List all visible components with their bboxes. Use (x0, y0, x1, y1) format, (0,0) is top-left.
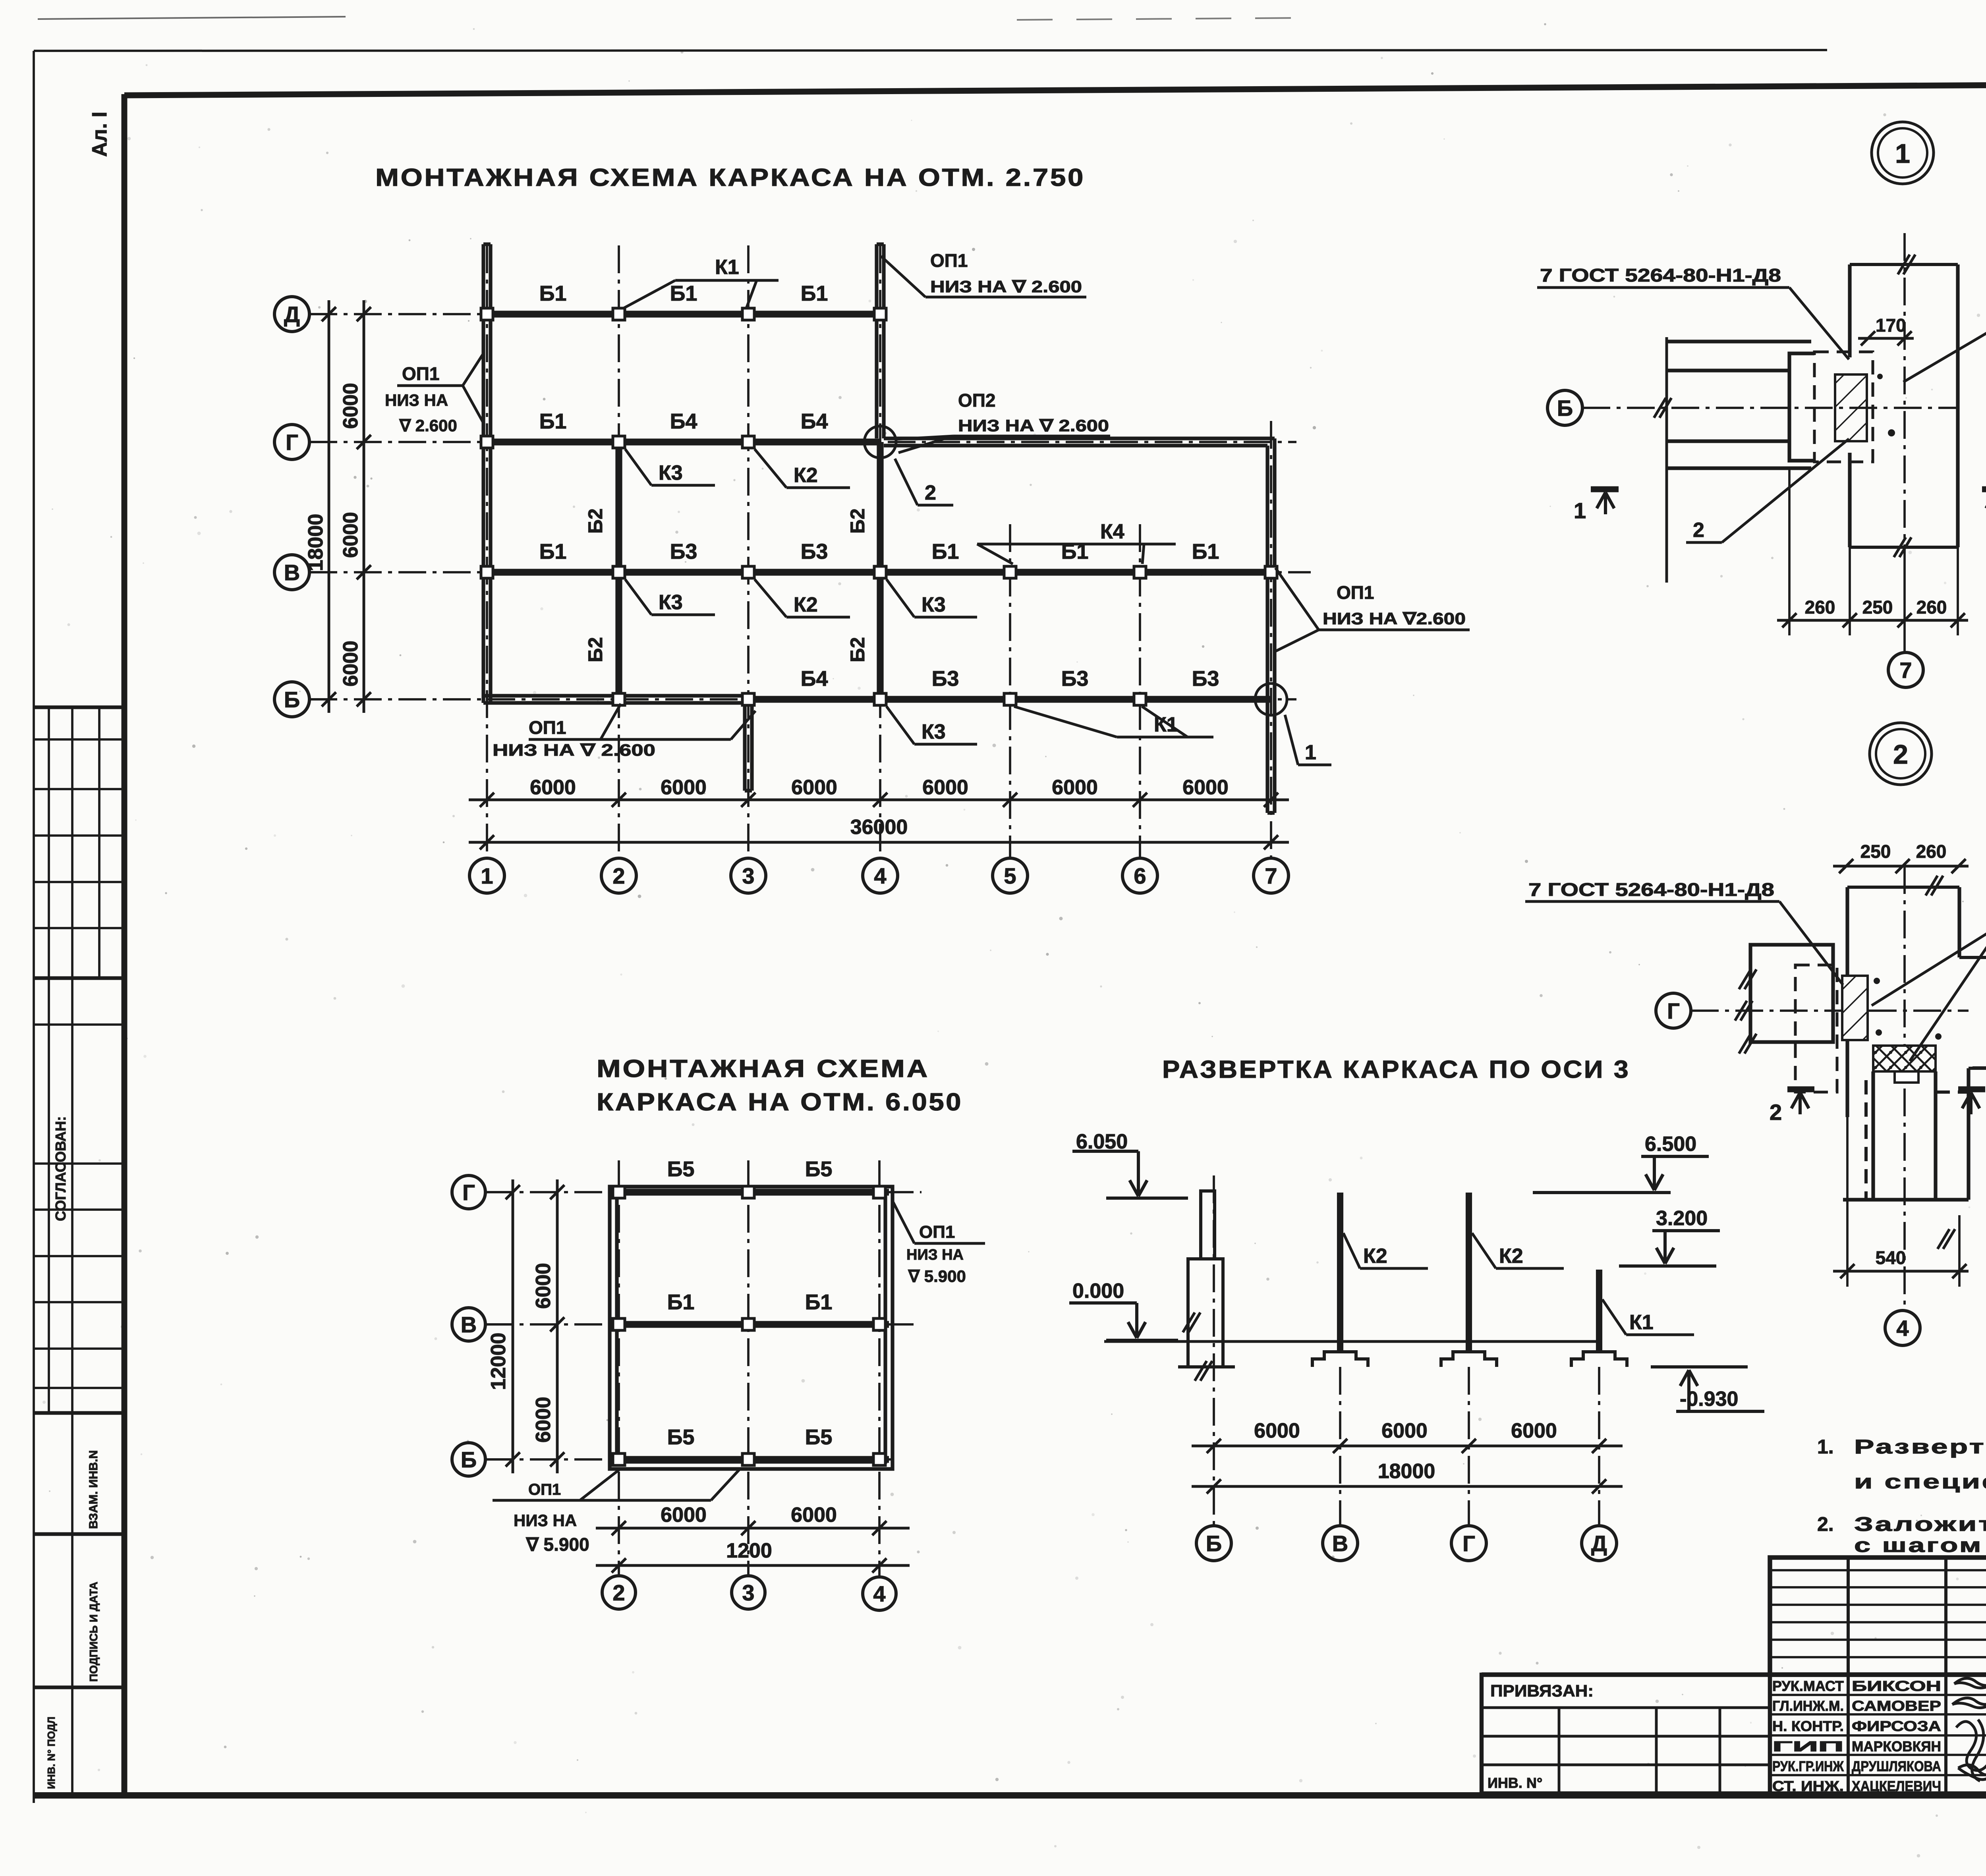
svg-text:Д: Д (1591, 1531, 1607, 1556)
svg-text:2.: 2. (1817, 1513, 1834, 1535)
svg-text:Б5: Б5 (805, 1157, 833, 1181)
svg-text:3: 3 (742, 1580, 754, 1605)
svg-text:Б3: Б3 (1192, 667, 1219, 691)
svg-text:Б3: Б3 (670, 540, 697, 564)
svg-text:Б2: Б2 (584, 508, 607, 534)
svg-text:250: 250 (1862, 597, 1893, 618)
svg-text:РУК.МАСТ: РУК.МАСТ (1772, 1678, 1844, 1694)
svg-text:260: 260 (1916, 597, 1947, 618)
svg-text:К2: К2 (794, 593, 818, 616)
svg-text:260: 260 (1916, 841, 1947, 862)
svg-text:Н. КОНТР.: Н. КОНТР. (1772, 1718, 1844, 1734)
svg-text:НИЗ НА ∇ 2.600: НИЗ НА ∇ 2.600 (493, 741, 655, 759)
svg-text:6: 6 (1134, 863, 1146, 888)
svg-text:1: 1 (481, 863, 493, 888)
svg-text:с шагом 450×450 по высоте.: с шагом 450×450 по высоте. (1854, 1534, 1986, 1556)
svg-text:ВЗАМ. ИНВ.N: ВЗАМ. ИНВ.N (87, 1450, 100, 1529)
svg-text:РАЗВЕРТКА КАРКАСА ПО ОСИ 3: РАЗВЕРТКА КАРКАСА ПО ОСИ 3 (1162, 1056, 1630, 1083)
svg-text:Б: Б (284, 687, 300, 712)
svg-text:НИЗ НА ∇ 2.600: НИЗ НА ∇ 2.600 (958, 416, 1109, 435)
svg-text:Г: Г (286, 430, 298, 455)
svg-text:Заложить 4 сетки Ф4ВΙ с яч: Заложить 4 сетки Ф4ВΙ с ячейкой 80×80 (1854, 1513, 1986, 1535)
svg-text:Б1: Б1 (801, 282, 828, 305)
svg-text:НИЗ НА ∇2.600: НИЗ НА ∇2.600 (1323, 609, 1466, 628)
svg-text:НИЗ НА ∇ 2.600: НИЗ НА ∇ 2.600 (930, 277, 1082, 296)
svg-text:6000: 6000 (530, 776, 576, 799)
svg-text:Б5: Б5 (667, 1157, 695, 1181)
svg-text:2: 2 (612, 1580, 625, 1605)
svg-text:Б5: Б5 (667, 1425, 695, 1449)
svg-text:К1: К1 (1629, 1311, 1654, 1334)
svg-text:170: 170 (1876, 315, 1906, 336)
svg-text:Б4: Б4 (801, 667, 828, 691)
svg-text:ОП1: ОП1 (402, 363, 439, 384)
svg-text:Б1: Б1 (539, 409, 567, 433)
svg-text:3: 3 (742, 863, 754, 888)
svg-text:6000: 6000 (339, 383, 362, 429)
svg-text:Б1: Б1 (1192, 540, 1219, 564)
svg-text:∇ 2.600: ∇ 2.600 (399, 416, 457, 435)
svg-text:6000: 6000 (339, 512, 362, 558)
svg-text:6000: 6000 (1052, 776, 1098, 799)
svg-text:Б2: Б2 (846, 508, 869, 534)
svg-text:12000: 12000 (487, 1333, 510, 1390)
svg-text:ОП1: ОП1 (528, 1481, 561, 1498)
svg-text:1.: 1. (1817, 1436, 1834, 1458)
svg-text:ДРУШЛЯКОВА: ДРУШЛЯКОВА (1852, 1758, 1941, 1774)
svg-text:К2: К2 (1499, 1245, 1523, 1268)
svg-text:К2: К2 (794, 464, 818, 487)
svg-text:6000: 6000 (532, 1397, 555, 1443)
svg-text:6000: 6000 (1511, 1419, 1557, 1442)
svg-text:4: 4 (874, 863, 886, 888)
svg-text:6000: 6000 (532, 1263, 555, 1309)
svg-text:ГИП: ГИП (1772, 1738, 1844, 1754)
svg-text:36000: 36000 (850, 816, 908, 839)
svg-text:К3: К3 (922, 720, 946, 743)
svg-text:МОНТАЖНАЯ СХЕМА КАРКАСА НА: МОНТАЖНАЯ СХЕМА КАРКАСА НА ОТМ. 2.750 (375, 164, 1085, 191)
svg-text:НИЗ НА: НИЗ НА (514, 1511, 577, 1530)
svg-text:КАРКАСА НА ОТМ. 6.050: КАРКАСА НА ОТМ. 6.050 (597, 1089, 963, 1116)
svg-text:Б: Б (1557, 396, 1573, 421)
svg-text:4: 4 (1896, 1316, 1909, 1341)
svg-text:НИЗ НА: НИЗ НА (906, 1247, 964, 1263)
svg-text:540: 540 (1876, 1247, 1906, 1268)
svg-text:ОП1: ОП1 (1337, 582, 1374, 603)
svg-text:К3: К3 (922, 593, 946, 616)
svg-text:2: 2 (1893, 739, 1908, 770)
svg-text:2: 2 (1770, 1100, 1782, 1125)
svg-text:К3: К3 (659, 461, 683, 484)
svg-text:260: 260 (1805, 597, 1835, 618)
svg-text:∇ 5.900: ∇ 5.900 (908, 1267, 966, 1285)
svg-text:18000: 18000 (1378, 1460, 1435, 1483)
svg-text:Б1: Б1 (667, 1290, 695, 1314)
svg-text:ГЛ.ИНЖ.М.: ГЛ.ИНЖ.М. (1772, 1698, 1844, 1714)
svg-text:6000: 6000 (1182, 776, 1229, 799)
svg-text:2: 2 (612, 863, 625, 888)
svg-text:К3: К3 (659, 591, 683, 614)
svg-text:6000: 6000 (661, 1504, 707, 1527)
svg-text:ОП2: ОП2 (958, 390, 995, 411)
svg-text:ИНВ. N°: ИНВ. N° (1488, 1775, 1542, 1791)
svg-text:Б1: Б1 (805, 1290, 833, 1314)
svg-text:Б3: Б3 (932, 667, 959, 691)
svg-text:ПОДПИСЬ И ДАТА: ПОДПИСЬ И ДАТА (87, 1582, 100, 1682)
svg-text:ОП1: ОП1 (529, 717, 566, 738)
svg-text:ХАЦКЕЛЕВИЧ: ХАЦКЕЛЕВИЧ (1852, 1778, 1941, 1794)
svg-text:Б2: Б2 (846, 637, 869, 662)
svg-text:Г: Г (1667, 998, 1680, 1023)
svg-text:2: 2 (925, 481, 936, 504)
svg-text:СТ. ИНЖ.: СТ. ИНЖ. (1772, 1778, 1844, 1794)
svg-text:ПРИВЯЗАН:: ПРИВЯЗАН: (1490, 1681, 1594, 1700)
svg-text:Б1: Б1 (539, 282, 567, 305)
svg-text:250: 250 (1860, 841, 1891, 862)
svg-text:Б2: Б2 (584, 637, 607, 662)
svg-text:Б1: Б1 (670, 282, 697, 305)
svg-text:Г: Г (462, 1180, 475, 1205)
svg-text:7: 7 (1265, 863, 1277, 888)
svg-text:К2: К2 (1363, 1245, 1387, 1268)
svg-text:Б: Б (461, 1447, 477, 1472)
svg-text:7: 7 (1899, 658, 1912, 683)
svg-text:МАРКОВКЯН: МАРКОВКЯН (1852, 1738, 1941, 1754)
svg-text:К4: К4 (1100, 520, 1124, 543)
svg-text:6000: 6000 (1381, 1419, 1428, 1442)
svg-text:Д: Д (284, 302, 300, 327)
svg-text:В: В (1332, 1531, 1348, 1556)
svg-text:∇ 5.900: ∇ 5.900 (525, 1534, 589, 1555)
svg-text:САМОВЕР: САМОВЕР (1852, 1698, 1941, 1714)
svg-text:18000: 18000 (304, 514, 327, 571)
svg-text:1: 1 (1574, 498, 1586, 523)
svg-text:0.000: 0.000 (1072, 1280, 1124, 1303)
svg-text:6000: 6000 (791, 1504, 837, 1527)
svg-text:6000: 6000 (922, 776, 968, 799)
svg-text:5: 5 (1004, 863, 1016, 888)
svg-text:ФИРСОЗА: ФИРСОЗА (1852, 1718, 1941, 1734)
svg-text:К1: К1 (715, 256, 739, 279)
svg-text:6000: 6000 (661, 776, 707, 799)
svg-text:Б4: Б4 (801, 409, 828, 433)
svg-text:В: В (284, 560, 300, 585)
svg-text:4: 4 (873, 1581, 885, 1606)
svg-text:7 ГОСТ 5264-80-Н1-Д8: 7 ГОСТ 5264-80-Н1-Д8 (1528, 879, 1774, 900)
svg-text:Б3: Б3 (801, 540, 828, 564)
svg-text:МОНТАЖНАЯ СХЕМА: МОНТАЖНАЯ СХЕМА (597, 1055, 929, 1083)
svg-text:Г: Г (1462, 1531, 1475, 1556)
svg-text:6000: 6000 (339, 641, 362, 687)
svg-text:Б1: Б1 (932, 540, 959, 564)
svg-text:Б1: Б1 (539, 540, 567, 564)
svg-text:2: 2 (1693, 519, 1704, 542)
svg-text:В: В (461, 1312, 477, 1337)
svg-text:Б: Б (1206, 1531, 1222, 1556)
svg-text:1200: 1200 (726, 1539, 772, 1562)
svg-text:6000: 6000 (791, 776, 837, 799)
svg-text:Б4: Б4 (670, 409, 697, 433)
svg-text:СОГЛАСОВАН:: СОГЛАСОВАН: (52, 1116, 69, 1221)
svg-text:НИЗ НА: НИЗ НА (385, 391, 448, 409)
svg-text:Ал. I: Ал. I (88, 112, 111, 157)
svg-text:1: 1 (1305, 741, 1316, 764)
svg-text:3.200: 3.200 (1656, 1207, 1708, 1230)
svg-text:Развертки каркаса по осям: Развертки каркаса по осям Д, Б, Г, 2, В,… (1854, 1436, 1986, 1458)
svg-text:ОП1: ОП1 (919, 1222, 955, 1242)
svg-text:РУК.ГР.ИНЖ: РУК.ГР.ИНЖ (1772, 1758, 1844, 1774)
svg-text:и спецификацию см. лист 19: и спецификацию см. лист 19. (1854, 1471, 1986, 1493)
svg-text:6.500: 6.500 (1645, 1133, 1696, 1156)
svg-text:Б3: Б3 (1061, 667, 1089, 691)
svg-text:БИКСОН: БИКСОН (1852, 1678, 1941, 1694)
svg-text:1: 1 (1895, 139, 1910, 169)
svg-text:6000: 6000 (1254, 1419, 1300, 1442)
svg-text:Б5: Б5 (805, 1425, 833, 1449)
svg-text:ИНВ. N° ПОДЛ: ИНВ. N° ПОДЛ (45, 1717, 57, 1789)
svg-text:ОП1: ОП1 (930, 250, 968, 271)
svg-text:7 ГОСТ 5264-80-Н1-Д8: 7 ГОСТ 5264-80-Н1-Д8 (1540, 265, 1781, 286)
